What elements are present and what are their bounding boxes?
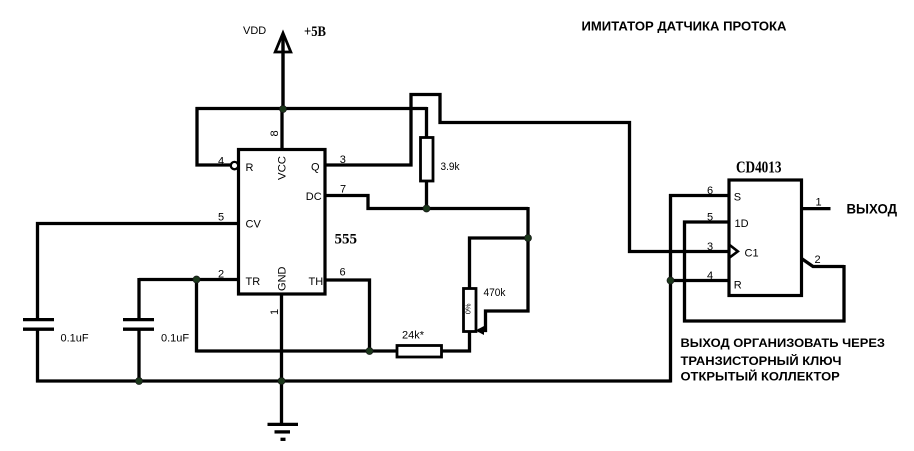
svg-text:470k: 470k	[484, 287, 506, 299]
svg-text:7: 7	[340, 183, 346, 195]
svg-text:2: 2	[815, 254, 821, 266]
svg-text:1D: 1D	[735, 218, 749, 230]
svg-text:3: 3	[707, 241, 713, 253]
svg-text:GND: GND	[277, 266, 289, 291]
svg-text:2: 2	[218, 268, 224, 280]
svg-text:5: 5	[218, 211, 224, 223]
svg-text:R: R	[246, 162, 254, 174]
svg-text:Q: Q	[311, 161, 320, 173]
svg-text:CV: CV	[246, 219, 262, 231]
svg-text:ОТКРЫТЫЙ КОЛЛЕКТОР: ОТКРЫТЫЙ КОЛЛЕКТОР	[681, 370, 841, 383]
svg-text:ВЫХОД: ВЫХОД	[847, 201, 898, 217]
svg-text:6: 6	[707, 185, 713, 197]
svg-text:4: 4	[707, 270, 713, 282]
svg-text:8: 8	[269, 130, 281, 136]
svg-text:0.1uF: 0.1uF	[161, 333, 189, 345]
svg-text:C1: C1	[745, 248, 759, 260]
svg-text:3.9k: 3.9k	[441, 161, 460, 173]
svg-text:VCC: VCC	[277, 156, 289, 180]
svg-text:5: 5	[707, 212, 713, 224]
svg-text:24k*: 24k*	[402, 329, 425, 341]
svg-text:ИМИТАТОР ДАТЧИКА ПРОТОКА: ИМИТАТОР ДАТЧИКА ПРОТОКА	[582, 19, 788, 34]
svg-text:VDD: VDD	[243, 25, 266, 37]
svg-text:DC: DC	[306, 191, 322, 203]
svg-text:CD4013: CD4013	[736, 158, 782, 177]
svg-text:R: R	[734, 279, 742, 291]
svg-text:1: 1	[816, 197, 822, 209]
svg-text:TR: TR	[246, 276, 261, 288]
svg-text:1: 1	[269, 309, 281, 315]
svg-text:S: S	[734, 191, 741, 203]
svg-text:3: 3	[340, 154, 346, 166]
svg-text:4: 4	[218, 155, 224, 167]
svg-text:ВЫХОД ОРГАНИЗОВАТЬ ЧЕРЕЗ: ВЫХОД ОРГАНИЗОВАТЬ ЧЕРЕЗ	[681, 338, 886, 350]
svg-text:+5В: +5В	[304, 24, 326, 40]
svg-text:6: 6	[340, 267, 346, 279]
svg-text:555: 555	[335, 231, 358, 247]
svg-text:ТРАНЗИСТОРНЫЙ КЛЮЧ: ТРАНЗИСТОРНЫЙ КЛЮЧ	[681, 355, 842, 368]
svg-text:0%: 0%	[464, 303, 473, 314]
svg-text:0.1uF: 0.1uF	[61, 332, 89, 344]
svg-text:TH: TH	[309, 276, 324, 288]
